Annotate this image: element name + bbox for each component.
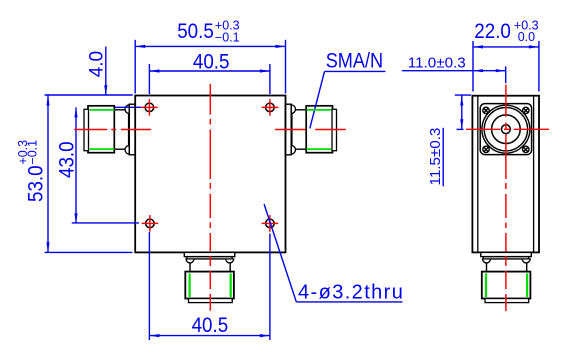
svg-text:SMA/N: SMA/N (326, 49, 383, 73)
svg-text:43.0: 43.0 (56, 141, 79, 178)
svg-text:50.5: 50.5 (177, 20, 214, 43)
svg-text:0.0: 0.0 (518, 30, 535, 44)
svg-text:11.0±0.3: 11.0±0.3 (408, 55, 466, 72)
svg-text:11.5±0.3: 11.5±0.3 (427, 128, 444, 186)
svg-text:40.5: 40.5 (192, 314, 229, 337)
svg-text:−0.1: −0.1 (215, 30, 240, 44)
svg-text:40.5: 40.5 (193, 51, 230, 74)
svg-text:22.0: 22.0 (474, 20, 511, 43)
svg-text:4-ø3.2thru: 4-ø3.2thru (298, 282, 404, 304)
svg-text:−0.1: −0.1 (25, 140, 39, 165)
svg-text:4.0: 4.0 (86, 51, 107, 77)
svg-text:53.0: 53.0 (25, 165, 48, 202)
